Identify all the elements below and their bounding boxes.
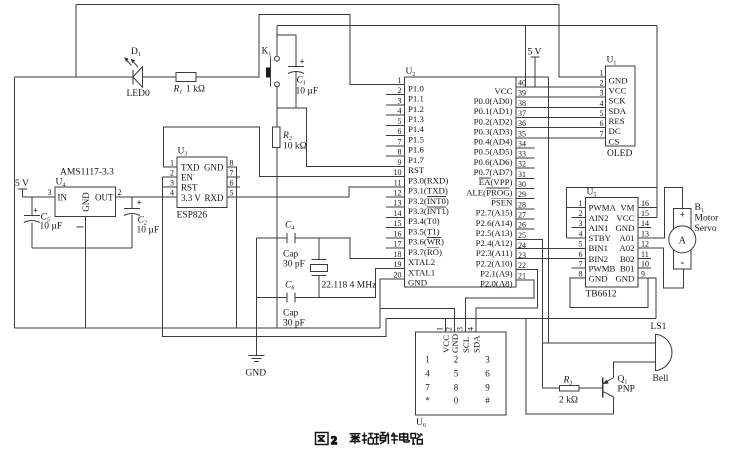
wire C6 row left xyxy=(257,297,287,299)
svg-text:SCL: SCL xyxy=(461,337,471,353)
TB6612 pin 12 label xyxy=(619,243,634,253)
driver U5 body xyxy=(585,198,637,288)
label R2 value xyxy=(283,142,307,152)
U2 pin 28 stub xyxy=(516,208,535,210)
TB6612 pin 3 number xyxy=(579,219,583,228)
wire C4 row left xyxy=(257,237,287,239)
wire TB6612 PWMB stub xyxy=(572,267,586,269)
wire top ground bus xyxy=(76,5,606,78)
label D1 xyxy=(131,47,141,58)
U2 pin 36 number xyxy=(518,119,526,128)
wire bell riser xyxy=(548,77,550,343)
label C5 value xyxy=(40,222,63,232)
svg-text:31: 31 xyxy=(518,170,526,179)
TB6612 pin 4 number xyxy=(579,229,583,238)
OLED pin 1 label xyxy=(609,76,628,86)
U2 pin 32 label xyxy=(474,167,513,177)
svg-text:37: 37 xyxy=(518,109,526,118)
svg-text:10: 10 xyxy=(394,168,402,177)
transistor Q1 base bar xyxy=(602,378,604,398)
U2 pin 9 number xyxy=(398,158,402,167)
U2 pin 10 label xyxy=(408,175,448,185)
U2 pin 13 number xyxy=(394,199,402,208)
U2 pin 11 number xyxy=(394,178,402,187)
svg-text:RXD: RXD xyxy=(204,193,224,203)
svg-text:29: 29 xyxy=(518,190,526,199)
svg-text:15: 15 xyxy=(641,209,649,218)
label ESP EN xyxy=(181,173,193,183)
U2 pin 24 number xyxy=(518,241,526,250)
TB6612 pin 2 label xyxy=(589,213,609,223)
U2 pin 31 stub xyxy=(516,177,535,179)
label R3 value xyxy=(559,396,578,406)
TB6612 pin 8 label xyxy=(589,273,608,283)
svg-text:30 pF: 30 pF xyxy=(283,260,305,270)
U2 pin 30 stub xyxy=(516,188,535,190)
wire left ground drop xyxy=(14,77,16,328)
svg-text:16: 16 xyxy=(394,229,402,238)
svg-text:12: 12 xyxy=(394,188,402,197)
svg-text:8: 8 xyxy=(454,383,459,393)
svg-text:VCC: VCC xyxy=(616,213,634,223)
U2 pin 23 number xyxy=(518,251,526,260)
svg-text:P1.2: P1.2 xyxy=(408,104,424,114)
U2 pin 33 number xyxy=(518,150,526,159)
label ESP pin1 xyxy=(170,159,174,168)
U2 pin 24 label xyxy=(476,248,513,258)
label OLED xyxy=(607,149,632,159)
svg-text:2: 2 xyxy=(118,188,122,197)
svg-text:28: 28 xyxy=(518,200,526,209)
ground symbol xyxy=(249,356,265,362)
svg-text:7: 7 xyxy=(579,260,583,269)
OLED pin 6 number xyxy=(600,119,604,128)
svg-text:3: 3 xyxy=(48,188,52,197)
svg-text:PWMB: PWMB xyxy=(589,263,616,273)
keypad key * xyxy=(425,396,430,406)
TB6612 pin 16 number xyxy=(641,199,649,208)
label C4 xyxy=(285,221,294,232)
svg-text:20: 20 xyxy=(394,270,402,279)
wire P0.1 to OLED SDA xyxy=(516,106,606,108)
TB6612 pin 4 label xyxy=(589,233,612,243)
svg-text:GND: GND xyxy=(609,76,628,86)
U2 pin 30 number xyxy=(518,180,526,189)
svg-text:3: 3 xyxy=(170,179,174,188)
U2 pin 17 number xyxy=(394,240,402,249)
OLED pin 2 label xyxy=(609,86,627,96)
wire 3.3V distribution line xyxy=(386,317,656,319)
svg-text:ALE(PROG): ALE(PROG) xyxy=(466,187,512,197)
label LED0 xyxy=(127,89,150,99)
label ESP pin6 xyxy=(230,179,234,188)
U2 pin 18 label xyxy=(408,257,435,267)
svg-text:39: 39 xyxy=(518,89,526,98)
label C2 value xyxy=(137,226,160,236)
svg-text:+: + xyxy=(300,57,305,67)
bell LS1 body xyxy=(656,334,672,371)
switch K1 actuator xyxy=(266,57,271,87)
wire R1 to P1.0 riser xyxy=(196,15,404,85)
svg-text:3: 3 xyxy=(456,327,465,331)
crystal Y1 plates xyxy=(312,260,327,276)
power 5V supply left xyxy=(18,189,27,197)
svg-text:7: 7 xyxy=(425,383,430,393)
label C4 value xyxy=(283,260,305,270)
capacitor C6 xyxy=(287,293,295,303)
svg-text:P1.0: P1.0 xyxy=(408,83,424,93)
U2 pin 26 label xyxy=(476,228,513,238)
U2 pin 4 number xyxy=(398,107,402,116)
svg-text:BIN2: BIN2 xyxy=(589,254,609,264)
U2 pin 27 label xyxy=(476,218,513,228)
transistor Q1 collector xyxy=(604,392,614,397)
svg-text:+: + xyxy=(137,198,142,208)
keypad key 2 xyxy=(454,355,459,365)
svg-text:3: 3 xyxy=(485,355,490,365)
svg-text:P0.6(AD6): P0.6(AD6) xyxy=(474,157,513,167)
wire ESP GND drop xyxy=(227,167,237,328)
svg-text:4: 4 xyxy=(466,327,475,331)
OLED pin 4 label xyxy=(609,106,627,116)
svg-text:16: 16 xyxy=(641,199,649,208)
svg-text:10 µF: 10 µF xyxy=(296,87,319,97)
U2 pin 26 stub xyxy=(516,228,535,230)
svg-text:GND: GND xyxy=(408,278,427,288)
wire P0.4 to OLED CS xyxy=(516,137,606,139)
TB6612 pin 5 label xyxy=(589,243,609,253)
svg-text:P2.5(A13): P2.5(A13) xyxy=(476,228,513,238)
svg-text:P0.2(AD2): P0.2(AD2) xyxy=(474,116,513,126)
wire P0.3 to OLED DC xyxy=(516,127,606,129)
svg-text:P3.2(INT0): P3.2(INT0) xyxy=(408,196,449,206)
svg-text:Cap: Cap xyxy=(283,309,299,319)
label 5V left xyxy=(15,179,29,189)
wire U2 corner to bell riser xyxy=(516,76,549,78)
U2 pin 39 label xyxy=(474,96,513,106)
U2 pin 28 label xyxy=(476,208,513,218)
label K1 xyxy=(262,47,272,58)
U2 pin 33 stub xyxy=(516,157,535,159)
svg-text:A: A xyxy=(679,236,687,247)
svg-text:XTAL1: XTAL1 xyxy=(408,267,435,277)
U2 pin 13 stub xyxy=(386,206,405,208)
svg-text:19: 19 xyxy=(394,260,402,269)
U2 pin 25 number xyxy=(518,231,526,240)
U2 pin 3 number xyxy=(398,96,402,105)
U2 pin 36 label xyxy=(474,126,513,136)
svg-text:23: 23 xyxy=(518,251,526,260)
wire crystal bottom stem xyxy=(318,276,320,298)
wire K1 bottom to RST node xyxy=(276,87,278,109)
svg-text:Servo: Servo xyxy=(695,224,717,234)
svg-text:13: 13 xyxy=(641,229,649,238)
label C2 plus xyxy=(137,198,142,208)
svg-text:P3.4(T0): P3.4(T0) xyxy=(408,216,440,226)
svg-text:P2.2(A10): P2.2(A10) xyxy=(476,258,513,268)
wire C5 bottom xyxy=(31,223,33,249)
svg-text:CS: CS xyxy=(609,136,620,146)
svg-text:34: 34 xyxy=(518,139,526,148)
U2 pin 8 label xyxy=(408,155,424,165)
U2 pin 12 stub xyxy=(386,196,405,198)
wire U2 GND pin20 xyxy=(380,279,404,328)
TB6612 pin 6 label xyxy=(589,254,609,264)
motor B1 circle xyxy=(669,226,696,253)
wire XTAL2 to C4 row xyxy=(295,238,404,258)
label LS1 xyxy=(651,322,667,332)
U2 pin 17 label xyxy=(408,247,442,257)
svg-text:P2.4(A12): P2.4(A12) xyxy=(476,238,513,248)
svg-text:GND: GND xyxy=(589,273,608,283)
U2 pin 35 number xyxy=(518,129,526,138)
label ESP pin8 xyxy=(230,159,234,168)
svg-text:2: 2 xyxy=(331,433,337,447)
capacitor C1 xyxy=(288,67,304,74)
svg-text:Motor: Motor xyxy=(695,214,720,224)
keypad key 8 xyxy=(454,383,459,393)
wire P0.2 to OLED RES xyxy=(516,117,606,119)
svg-text:2 kΩ: 2 kΩ xyxy=(559,396,578,406)
wire ESP pin6 stub xyxy=(227,186,240,188)
wire 5V bus xyxy=(277,25,657,27)
svg-text:5: 5 xyxy=(398,117,402,126)
U2 pin 7 label xyxy=(408,145,424,155)
U2 pin 27 number xyxy=(518,210,526,219)
svg-text:P0.7(AD7): P0.7(AD7) xyxy=(474,167,513,177)
U2 pin 29 label xyxy=(491,197,513,207)
U2 pin 34 label xyxy=(474,147,513,157)
TB6612 pin 15 number xyxy=(641,209,649,218)
svg-text:EA(VPP): EA(VPP) xyxy=(479,177,513,187)
label C1 xyxy=(297,76,306,87)
keypad key 7 xyxy=(425,383,430,393)
svg-text:26: 26 xyxy=(518,221,526,230)
svg-text:3.3 V: 3.3 V xyxy=(181,193,201,203)
svg-text:8: 8 xyxy=(230,159,234,168)
wire P2.1 to keypad SDA xyxy=(476,270,537,332)
svg-text:35: 35 xyxy=(518,129,526,138)
U2 pin 20 label xyxy=(408,278,427,288)
label U5 xyxy=(587,188,597,199)
wire VCC pin15 stub xyxy=(638,217,657,219)
label B1 xyxy=(695,203,704,214)
U2 pin 3 stub xyxy=(386,104,405,106)
label PNP xyxy=(618,385,635,395)
svg-text:RST: RST xyxy=(408,165,425,175)
U2 pin 22 number xyxy=(518,261,526,270)
U2 pin 5 stub xyxy=(386,124,405,126)
svg-text:P2.6(A14): P2.6(A14) xyxy=(476,218,513,228)
svg-text:1: 1 xyxy=(170,159,174,168)
svg-text:3: 3 xyxy=(600,89,604,98)
svg-text:6: 6 xyxy=(398,127,402,136)
svg-text:Cap: Cap xyxy=(283,250,299,260)
svg-text:SDA: SDA xyxy=(472,335,482,353)
U2 pin 30 label xyxy=(466,187,512,197)
display U1 body xyxy=(606,66,635,146)
wire AMS 5V symbol stem xyxy=(21,189,23,197)
svg-text:P1.3: P1.3 xyxy=(408,114,424,124)
svg-text:GND: GND xyxy=(615,223,634,233)
label C6 cap xyxy=(283,309,299,319)
svg-text:1: 1 xyxy=(425,355,430,365)
svg-text:17: 17 xyxy=(394,240,402,249)
TB6612 pin 14 label xyxy=(615,223,634,233)
keypad key # xyxy=(485,396,490,406)
wire VM-VCC riser xyxy=(656,26,658,218)
U2 pin 31 label xyxy=(479,177,513,187)
svg-text:1: 1 xyxy=(398,76,402,85)
svg-text:IN: IN xyxy=(58,193,68,203)
svg-text:VCC: VCC xyxy=(609,86,627,96)
svg-text:10 kΩ: 10 kΩ xyxy=(283,142,307,152)
svg-text:GND: GND xyxy=(81,192,91,212)
svg-text:GND: GND xyxy=(615,273,634,283)
U2 pin 29 stub xyxy=(516,198,535,200)
U2 pin 40 number xyxy=(518,79,526,88)
svg-text:P2.3(A11): P2.3(A11) xyxy=(476,248,513,258)
wire R3 base link xyxy=(579,387,603,389)
svg-text:+: + xyxy=(680,210,685,220)
wire TB6612 B01 stub xyxy=(638,267,651,269)
svg-text:27: 27 xyxy=(518,210,526,219)
keypad key 9 xyxy=(485,383,490,393)
regulator U4 body xyxy=(55,187,116,217)
svg-text:30 pF: 30 pF xyxy=(283,319,305,329)
label ESP pin4 xyxy=(170,189,174,198)
U2 pin 32 number xyxy=(518,160,526,169)
U2 pin 20 number xyxy=(394,270,402,279)
U2 pin 19 number xyxy=(394,260,402,269)
svg-text:P0.5(AD5): P0.5(AD5) xyxy=(474,147,513,157)
U2 pin 16 number xyxy=(394,229,402,238)
svg-text:P3.6(WR): P3.6(WR) xyxy=(408,237,444,247)
label U4 OUT xyxy=(95,193,114,203)
wire ground net left segment xyxy=(15,76,133,78)
U2 pin 10 number xyxy=(394,168,402,177)
svg-text:36: 36 xyxy=(518,119,526,128)
label U4 pin3 xyxy=(48,188,52,197)
svg-text:6: 6 xyxy=(230,179,234,188)
wire LED anode to R1 xyxy=(143,76,176,78)
label U4 xyxy=(56,178,66,189)
svg-text:1: 1 xyxy=(579,199,583,208)
U2 pin 14 stub xyxy=(386,216,405,218)
svg-text:14: 14 xyxy=(641,219,649,228)
keypad pin 1 name xyxy=(441,335,451,353)
transistor Q1 emitter xyxy=(603,378,614,385)
wire GND branch to keypad xyxy=(380,309,455,333)
svg-text:32: 32 xyxy=(518,160,526,169)
label ESP RXD xyxy=(204,193,224,203)
svg-text:9: 9 xyxy=(485,383,490,393)
U2 pin 15 number xyxy=(394,219,402,228)
keypad key 3 xyxy=(485,355,490,365)
label ESP RST xyxy=(181,183,198,193)
svg-text:OUT: OUT xyxy=(95,193,114,203)
U2 pin 37 label xyxy=(474,116,513,126)
U2 pin 14 label xyxy=(408,216,440,226)
wire C2 top stem xyxy=(131,197,133,209)
wire TB6612 GND pin14 stub xyxy=(638,227,651,229)
U2 pin 34 number xyxy=(518,139,526,148)
U2 pin 12 number xyxy=(394,188,402,197)
label U3 xyxy=(178,147,188,158)
svg-text:1: 1 xyxy=(600,69,604,78)
svg-text:Bell: Bell xyxy=(653,374,669,384)
svg-text:A02: A02 xyxy=(619,243,634,253)
TB6612 pin 10 number xyxy=(641,260,649,269)
svg-text:12: 12 xyxy=(641,239,649,248)
keypad pin 2 name xyxy=(450,334,460,353)
wire cap ground link xyxy=(32,247,132,249)
svg-text:P2.0(A8): P2.0(A8) xyxy=(480,279,513,289)
svg-text:TB6612: TB6612 xyxy=(586,290,617,300)
U2 pin 8 number xyxy=(398,148,402,157)
U2 pin 39 number xyxy=(518,89,526,98)
svg-text:P1.6: P1.6 xyxy=(408,145,424,155)
svg-text:LS1: LS1 xyxy=(651,322,667,332)
wire crystal top stem xyxy=(318,238,320,260)
keypad pin 3 number xyxy=(456,327,465,331)
wire AMS GND drop xyxy=(85,217,87,328)
OLED pin 2 number xyxy=(600,79,604,88)
wire C1 bottom xyxy=(295,72,297,108)
label Motor xyxy=(695,214,720,224)
svg-text:P2.7(A15): P2.7(A15) xyxy=(476,208,513,218)
svg-text:*: * xyxy=(425,396,430,406)
keypad pin 2 number xyxy=(445,327,454,331)
svg-text:B02: B02 xyxy=(620,254,635,264)
keypad U6 body xyxy=(416,332,507,415)
svg-text:P3.5(T1): P3.5(T1) xyxy=(408,226,440,236)
label C5 plus xyxy=(33,206,38,216)
svg-text:P1.7: P1.7 xyxy=(408,155,424,165)
wire VM supply link xyxy=(567,187,658,189)
svg-text:2: 2 xyxy=(170,169,174,178)
U2 pin 26 number xyxy=(518,221,526,230)
motor B1 A xyxy=(679,236,687,247)
OLED pin 1 number xyxy=(600,69,604,78)
TB6612 pin 12 number xyxy=(641,239,649,248)
U2 pin 35 label xyxy=(474,137,513,147)
label Servo xyxy=(695,224,717,234)
wire VCC pin40 to OLED VCC xyxy=(516,86,606,88)
svg-text:#: # xyxy=(485,396,490,406)
motor B1 minus xyxy=(680,257,684,269)
TB6612 pin 15 label xyxy=(616,213,634,223)
label ESP pin7 xyxy=(230,169,234,178)
svg-text:STBY: STBY xyxy=(589,233,612,243)
TB6612 pin 11 label xyxy=(620,254,635,264)
wire VM pin16 stub xyxy=(638,207,657,209)
U2 pin 14 number xyxy=(394,209,402,218)
svg-text:ESP826: ESP826 xyxy=(177,211,208,221)
U2 pin 27 stub xyxy=(516,218,535,220)
power 5V supply top xyxy=(531,57,540,87)
wire ESP RXD to U2 TXD xyxy=(227,187,404,197)
svg-text:P2.1(A9): P2.1(A9) xyxy=(480,269,513,279)
label U2 xyxy=(406,67,416,78)
label Q1 xyxy=(618,375,628,386)
TB6612 pin 9 number xyxy=(641,270,645,279)
svg-text:15: 15 xyxy=(394,219,402,228)
U2 pin 11 label xyxy=(408,186,448,196)
svg-text:A01: A01 xyxy=(619,233,634,243)
label C1 value xyxy=(296,87,319,97)
U2 pin 6 stub xyxy=(386,135,405,137)
